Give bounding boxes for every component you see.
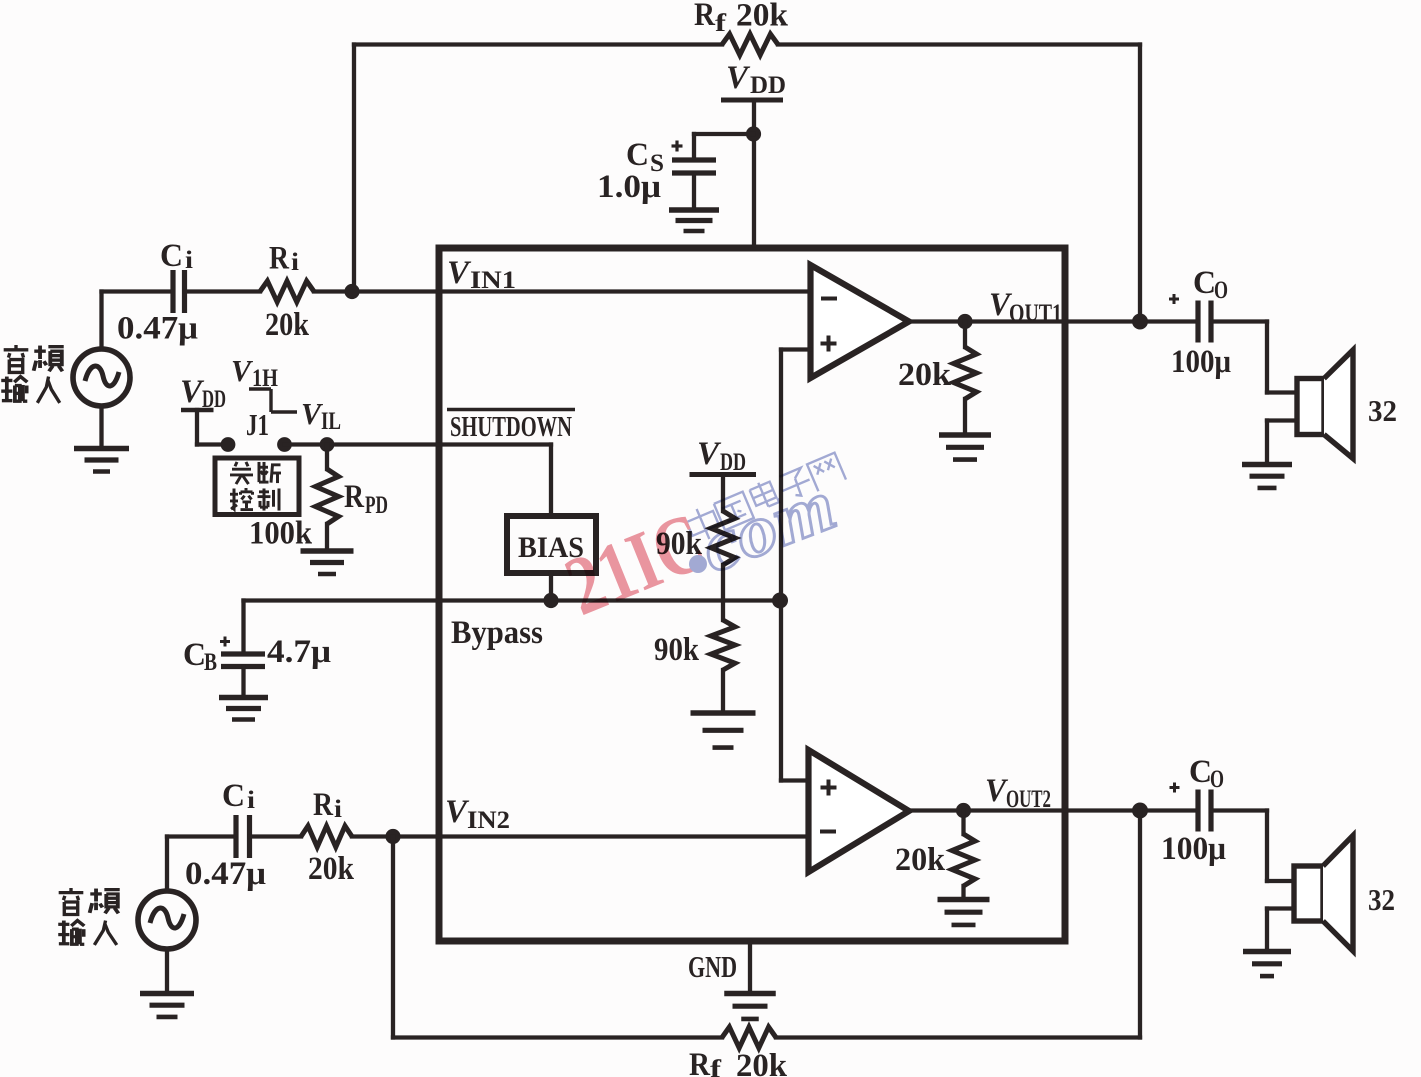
resistor Rf (top feedback) 20k [722, 34, 778, 55]
resistor Rf (bottom feedback) 20k [722, 1027, 776, 1048]
svg-text:i: i [291, 249, 299, 276]
svg-text:20k: 20k [895, 842, 946, 878]
svg-text:32: 32 [1368, 393, 1397, 428]
ground (RPD) [301, 548, 354, 554]
svg-text:C: C [183, 637, 206, 673]
wire: VOUT2 from op-amp to pin [909, 808, 1198, 812]
ground (source 2) [165, 949, 169, 992]
wire: Ri to VIN1 pin and op-amp inverting input [314, 289, 811, 293]
svg-text:20k: 20k [265, 307, 310, 343]
node: VOUT2 feedback junction [1132, 803, 1148, 819]
svg-text:100k: 100k [249, 516, 313, 552]
svg-text:0.47μ: 0.47μ [185, 856, 266, 892]
ground (20k ch1) [939, 432, 991, 438]
label: audio input (Chinese) ch2 [59, 888, 84, 914]
svg-text:R: R [694, 0, 716, 33]
speaker LS2 [1294, 866, 1323, 921]
svg-text:90k: 90k [654, 632, 700, 668]
svg-text:SHUTDOWN: SHUTDOWN [450, 411, 572, 443]
capacitor CO 100u (ch1 output, polarized) [1195, 301, 1200, 343]
svg-text:4.7μ: 4.7μ [267, 634, 331, 670]
node: RPD junction [320, 437, 335, 452]
wire: Bypass pin net [244, 598, 781, 602]
svg-text:OUT2: OUT2 [1006, 786, 1051, 813]
svg-text:32: 32 [1368, 882, 1395, 917]
svg-text:J1: J1 [246, 407, 269, 442]
svg-text:DD: DD [720, 449, 746, 476]
speaker LS1 [1297, 379, 1324, 435]
wire: SHUTDOWN to BIAS [549, 445, 553, 517]
wire to CS [694, 132, 754, 136]
wire: Ci to Ri [185, 289, 261, 293]
op-amp U1A [811, 265, 910, 378]
svg-text:1.0μ: 1.0μ [597, 169, 661, 205]
node: BIAS junction on bypass net [543, 593, 558, 608]
svg-text:C: C [1189, 754, 1212, 790]
svg-text:100μ: 100μ [1171, 344, 1231, 380]
audio input source 2 (sine) [138, 891, 196, 949]
ground (CS) [669, 207, 719, 213]
node: VIN2 / feedback junction [385, 829, 400, 844]
svg-text:O: O [1210, 766, 1224, 793]
ground (speaker ch1) [1267, 418, 1297, 422]
node: VOUT1 feedback junction [1132, 314, 1148, 330]
ground (source 1) [99, 406, 103, 447]
wire: source 1 to Ci [99, 292, 103, 350]
watermark (decorative) [553, 451, 846, 634]
capacitor Ci 0.47u (ch1 input coupling) [170, 270, 175, 313]
wire: top feedback from VIN1 node up and across to VOUT1 [354, 42, 722, 46]
ground (CB) [241, 667, 245, 697]
resistor 90k (upper) [721, 475, 725, 512]
svg-text:f: f [710, 1056, 722, 1077]
capacitor CO 100u (ch2 output, polarized) [1195, 790, 1200, 832]
IC U1 (dual audio power amplifier) boundary [439, 248, 1065, 941]
shutdown control box (Chinese) [215, 458, 299, 515]
svg-text:20k: 20k [308, 851, 355, 887]
svg-text:IL: IL [321, 408, 341, 435]
svg-text:C: C [1193, 265, 1216, 301]
svg-text:i: i [185, 247, 193, 274]
pin label SHUTDOWN (active low, overline) [447, 408, 575, 412]
svg-text:V: V [301, 396, 323, 431]
ground (20k ch2) [938, 897, 990, 903]
capacitor CB 4.7u (bypass, polarized) [241, 601, 245, 653]
svg-text:B: B [204, 649, 217, 676]
svg-text:IN1: IN1 [470, 267, 516, 294]
power rail VDD (internal divider) [690, 472, 757, 477]
wire: Ci to Ri ch2 [250, 834, 302, 838]
svg-text:DD: DD [202, 386, 226, 413]
svg-text:100μ: 100μ [1161, 831, 1226, 867]
svg-text:f: f [715, 10, 727, 37]
wire: CO to speaker ch2 [1211, 808, 1267, 812]
resistor Ri 20k (ch1) [260, 281, 314, 302]
wire: BIAS to bypass net [549, 573, 553, 601]
wire: + input stub ch2 [781, 778, 809, 782]
svg-text:C: C [160, 238, 183, 274]
resistor 90k (lower) [721, 601, 725, 621]
svg-text:20k: 20k [736, 0, 789, 34]
svg-text:20k: 20k [898, 357, 952, 393]
wire: bottom feedback from VIN2 node down and across to VOUT2 [391, 837, 395, 1038]
resistor 20k (ch1 load) [963, 322, 967, 348]
svg-text:0.47μ: 0.47μ [117, 311, 198, 347]
svg-text:C: C [222, 778, 245, 814]
switch J1 contacts [221, 437, 236, 452]
capacitor Ci 0.47u (ch2 input coupling) [233, 815, 238, 858]
svg-text:DD: DD [750, 72, 786, 99]
svg-text:V: V [697, 436, 722, 472]
wire: source 2 to Ci ch2 [165, 837, 169, 892]
svg-text:GND: GND [688, 949, 737, 984]
capacitor CS 1.0u (supply bypass, polarized) [672, 157, 716, 162]
svg-text:V: V [726, 60, 751, 96]
wire: J1 to SHUTDOWN pin [285, 442, 552, 446]
svg-text:IN2: IN2 [467, 807, 510, 834]
ground (90k divider) [691, 710, 756, 716]
svg-text:i: i [334, 796, 342, 823]
svg-text:R: R [689, 1047, 711, 1077]
ground (GND pin) [724, 991, 776, 997]
svg-text:Bypass: Bypass [451, 615, 543, 651]
resistor 20k (ch2 load) [961, 811, 965, 835]
audio input source 1 (sine) [73, 349, 130, 406]
wire: VOUT1 from op-amp to pin [909, 319, 1198, 323]
wire: CO to speaker ch1 [1211, 319, 1267, 323]
pin GND [748, 941, 752, 992]
op-amp U1B [809, 750, 910, 872]
power rail VDD (top) [721, 98, 783, 103]
svg-text:V: V [447, 255, 472, 291]
svg-text:V: V [231, 353, 253, 388]
power rail VDD (J1) [181, 408, 214, 413]
node: 20k load junction (ch2) [956, 803, 971, 818]
wire: op-amp reference (+ inputs) vertical [779, 350, 783, 781]
node: 20k load junction (ch1) [957, 314, 972, 329]
svg-text:R: R [313, 787, 334, 823]
node: VIN1 / feedback junction [344, 284, 359, 299]
wire: Ri to VIN2 pin and op-amp inverting input [352, 834, 809, 838]
svg-text:C: C [626, 137, 649, 173]
node: bypass / op-amp reference junction [772, 593, 788, 609]
wire VDD to J1 contact [195, 410, 199, 445]
svg-text:O: O [1214, 277, 1228, 304]
svg-text:i: i [247, 787, 255, 814]
svg-text:PD: PD [365, 492, 388, 519]
BIAS block [507, 516, 596, 573]
ground (speaker ch2) [1267, 906, 1294, 910]
svg-text:20k: 20k [736, 1048, 788, 1077]
svg-text:OUT1: OUT1 [1009, 300, 1062, 327]
svg-text:R: R [269, 241, 290, 277]
node: VDD / CS junction [746, 126, 761, 141]
label: audio input (Chinese) ch1 [4, 345, 29, 372]
svg-text:R: R [344, 479, 365, 515]
resistor Ri 20k (ch2) [301, 826, 352, 847]
resistor RPD 100k [325, 445, 329, 470]
